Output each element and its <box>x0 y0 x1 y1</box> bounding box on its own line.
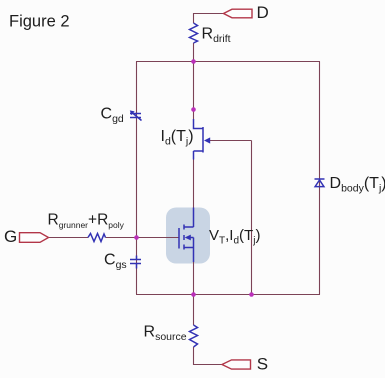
svg-text:VT,Id(Tj): VT,Id(Tj) <box>209 227 260 247</box>
svg-text:Cgs: Cgs <box>104 252 127 272</box>
svg-text:Rgrunner+Rpoly: Rgrunner+Rpoly <box>48 212 125 230</box>
svg-text:Dbody(Tj): Dbody(Tj) <box>330 175 385 195</box>
svg-text:Id(Tj): Id(Tj) <box>161 128 194 148</box>
svg-text:G: G <box>4 227 17 246</box>
svg-text:Rsource: Rsource <box>144 324 187 344</box>
svg-text:Rdrift: Rdrift <box>202 26 231 46</box>
svg-text:D: D <box>257 3 269 22</box>
svg-text:S: S <box>257 355 268 374</box>
svg-text:Figure 2: Figure 2 <box>9 13 70 31</box>
svg-text:Cgd: Cgd <box>101 106 124 126</box>
